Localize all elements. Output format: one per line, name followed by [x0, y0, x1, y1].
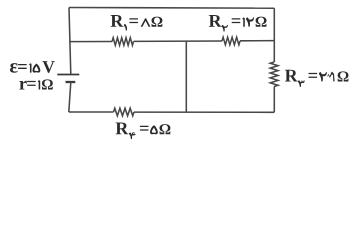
wire middle vertical [185, 41, 187, 112]
resistor R3 [270, 62, 278, 87]
resistor R1 [112, 38, 133, 46]
wire left vertical upper [69, 8, 71, 75]
battery long plate + [57, 74, 79, 76]
wire second rail right segment [240, 40, 274, 42]
label R2 = 12 ohm [209, 15, 267, 32]
resistor R2 [222, 37, 240, 45]
battery short plate - [66, 81, 76, 83]
wire top rail [69, 7, 274, 10]
label R3 = 24 ohm [285, 70, 349, 87]
wire second rail middle segment [134, 40, 223, 42]
label r = 1 ohm [19, 79, 52, 89]
wire bottom rail right segment [134, 111, 274, 113]
resistor R4 [114, 108, 135, 116]
wire left vertical lower [69, 82, 71, 112]
wire right vertical upper [273, 8, 275, 62]
label R4 = 5 ohm [116, 122, 171, 139]
wire second rail left segment [69, 41, 112, 43]
label emf = 15 V [10, 61, 55, 73]
label R1 = 8 ohm [111, 15, 163, 31]
wire right vertical lower [273, 87, 275, 113]
wire bottom rail left segment [69, 111, 114, 113]
circuit schematic: emf source with internal resistance and four resistors [0, 0, 351, 144]
